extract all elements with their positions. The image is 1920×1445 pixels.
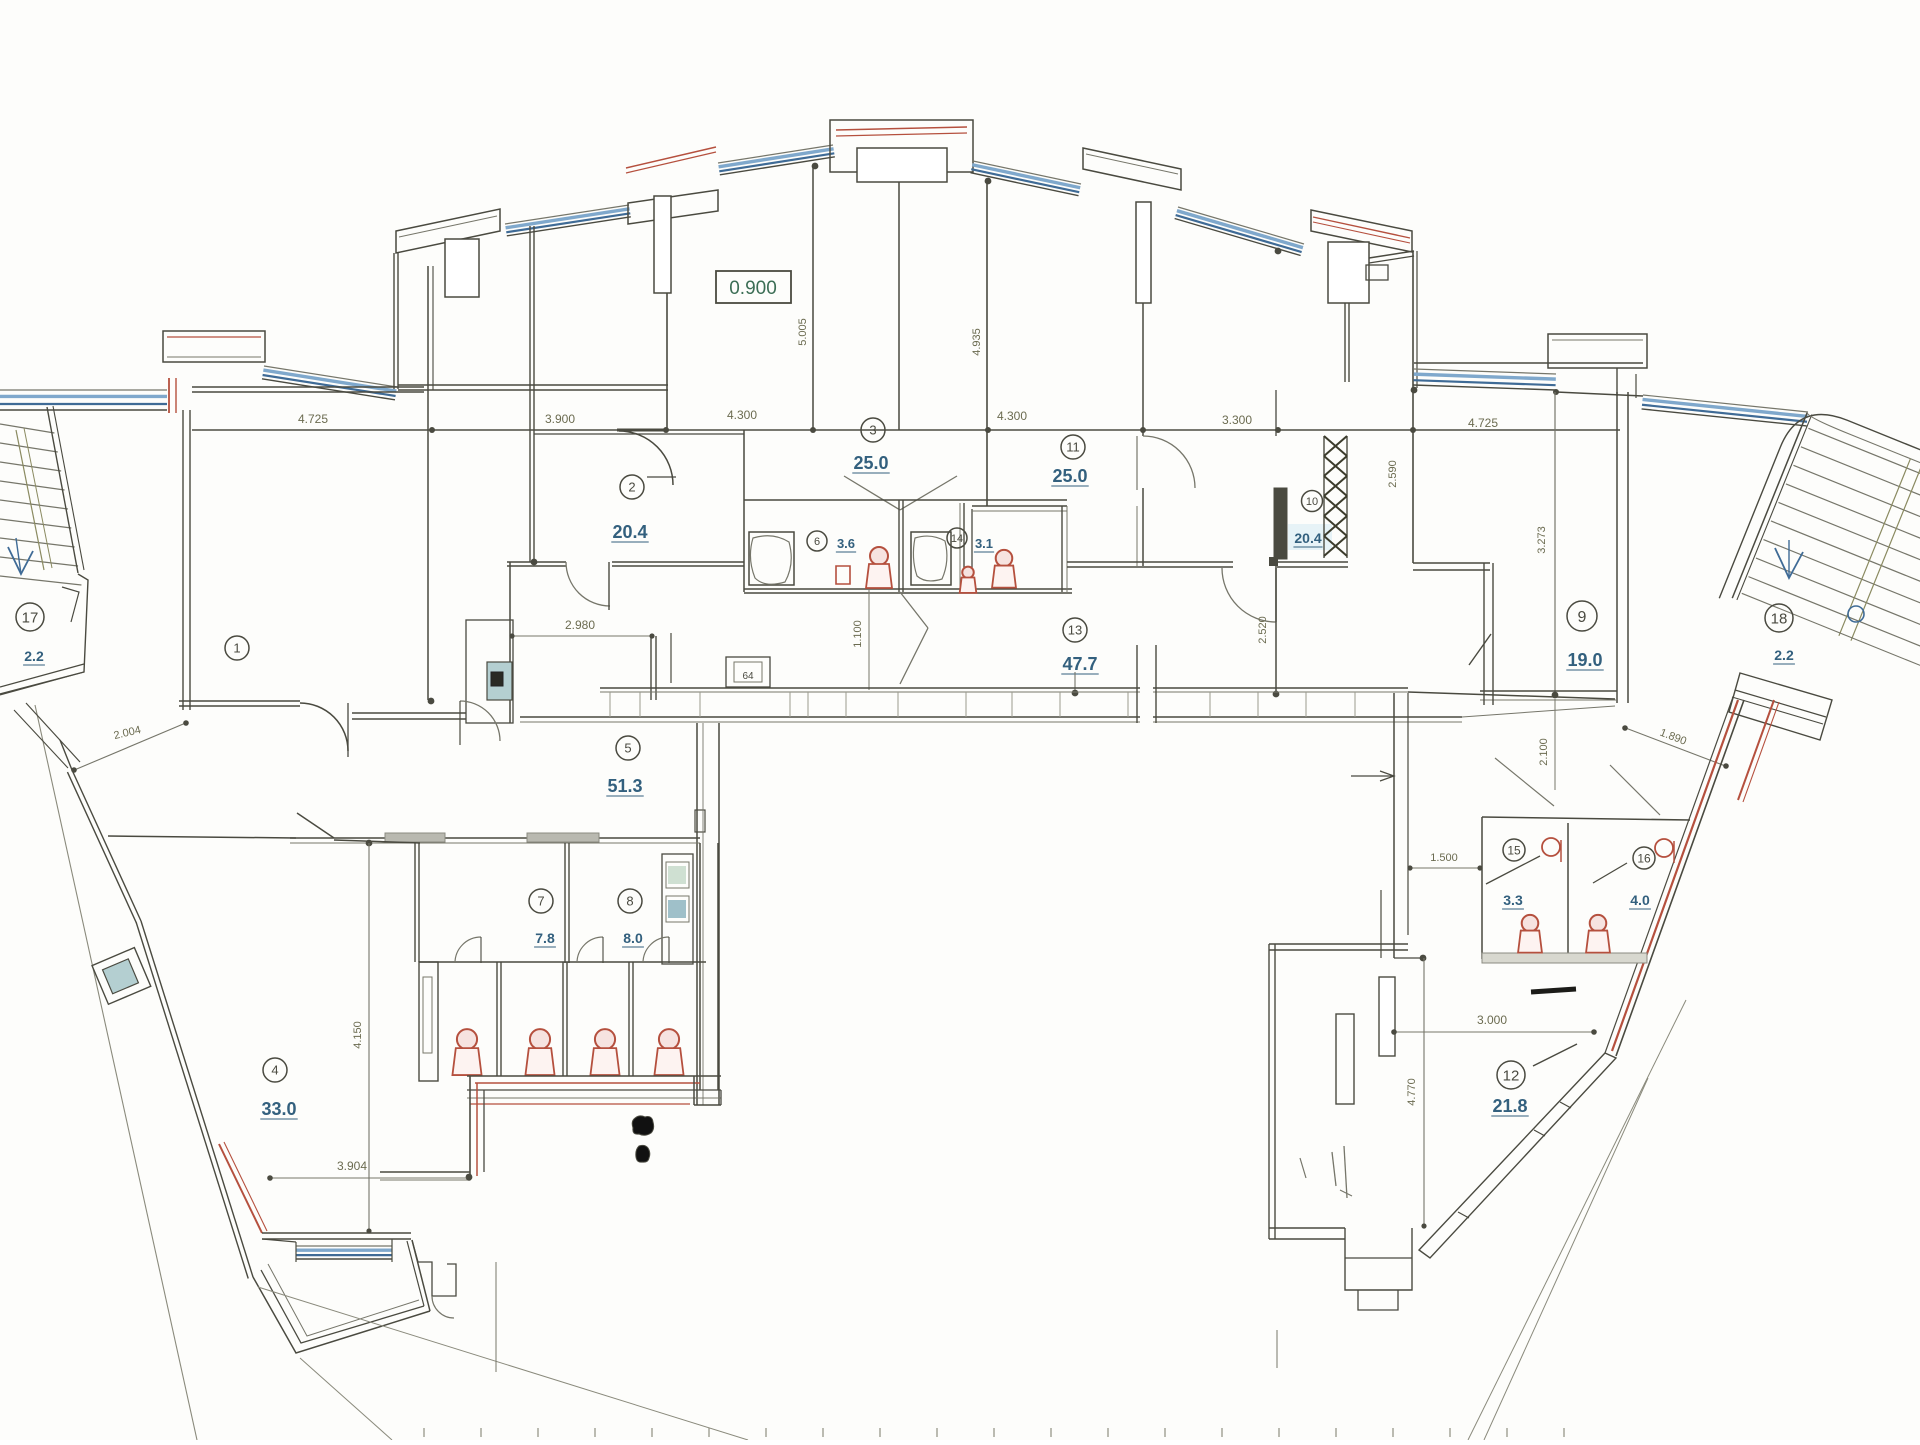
toilet wc15 [1522, 915, 1539, 932]
node dot [428, 698, 435, 705]
door arc room2 top [619, 431, 673, 485]
wall room2 top second line [534, 433, 744, 435]
room circle 11 [1061, 435, 1085, 459]
hall right wall inner [1380, 890, 1382, 958]
wall below pillar 2 [666, 293, 668, 430]
thick wall under toilets [467, 1075, 721, 1077]
wire sloped window strip 4 [973, 161, 1081, 184]
stair left stringer olive [16, 430, 44, 570]
svg-text:7: 7 [537, 894, 544, 909]
toilet stall 3 [595, 1029, 615, 1049]
svg-text:4.0: 4.0 [1630, 892, 1650, 908]
node junction [985, 178, 992, 185]
room circle 10 [1302, 491, 1323, 512]
balcony bump 4 [1311, 210, 1412, 252]
svg-text:5: 5 [624, 741, 631, 756]
balcony bump 2 [628, 190, 718, 224]
corridor wall hatch ticks [609, 692, 611, 717]
sink wc16 [1655, 839, 1673, 857]
site diagonal SE [1468, 1000, 1686, 1440]
bay step right [412, 1240, 456, 1296]
door arc room1 bottom [300, 703, 348, 751]
vert dim 4770 [1423, 958, 1425, 1228]
svg-text:16: 16 [1637, 851, 1651, 865]
door wc15 [1486, 856, 1540, 884]
toilet stall 2 [530, 1029, 550, 1049]
wall rooms 11-13 bottom [1067, 561, 1233, 563]
svg-text:3.900: 3.900 [545, 412, 575, 426]
stall right wall [699, 843, 701, 1090]
svg-text:3.3: 3.3 [1503, 892, 1523, 908]
dim 2004 diagonal [72, 722, 188, 771]
wall wc top [1482, 817, 1690, 820]
shelf unit [662, 854, 693, 964]
stair arrow blue [8, 547, 33, 574]
wall room1 left [182, 410, 184, 710]
wire sloped window strip 3 [718, 145, 833, 163]
room circle 13 [1063, 618, 1087, 642]
room circle 7 [529, 889, 553, 913]
svg-text:3.300: 3.300 [1222, 413, 1252, 427]
red rail diagonal [1738, 700, 1774, 800]
room circle 3 [861, 418, 885, 442]
dim 1890 diagonal [1623, 727, 1728, 767]
peak window sill [857, 148, 947, 182]
node wing dot [1411, 387, 1418, 394]
svg-text:0.900: 0.900 [729, 278, 777, 299]
shower room14 [911, 532, 951, 585]
wall segment bottom [1277, 561, 1348, 563]
svg-text:47.7: 47.7 [1062, 654, 1097, 674]
wall toilets left [418, 843, 420, 962]
svg-text:14: 14 [951, 533, 963, 545]
wall bottom right of door [352, 712, 466, 714]
node dot [531, 559, 538, 566]
stair arrow blue right [1775, 548, 1803, 578]
wall x1143 with door [1142, 303, 1144, 436]
wall right end under toilets [693, 1076, 695, 1105]
pillar 3 [1136, 202, 1151, 303]
dim drop room13 [1074, 672, 1076, 693]
node junction [1275, 248, 1282, 255]
site line west [35, 705, 197, 1440]
svg-text:1.890: 1.890 [1658, 727, 1688, 748]
svg-text:7.8: 7.8 [535, 930, 555, 946]
teal shaft box [487, 662, 512, 700]
west wall upper piece [60, 740, 72, 770]
door arc stall 1 [455, 937, 481, 963]
door leaf and arc lower [1275, 568, 1277, 622]
balcony bump 3 [1083, 148, 1181, 190]
node red jamb at strip end [168, 378, 170, 413]
stall divider 2 [566, 962, 568, 1076]
ink blob 2 [636, 1145, 650, 1162]
wall wing top y392 [1556, 392, 1643, 396]
toilet wc16 [1590, 915, 1607, 932]
svg-text:8.0: 8.0 [623, 930, 643, 946]
svg-text:2.004: 2.004 [113, 724, 143, 742]
wall x813 [812, 166, 814, 430]
bay window wall band mid [261, 1270, 424, 1343]
black shaft bar [1274, 488, 1287, 559]
svg-text:2.980: 2.980 [565, 618, 595, 632]
svg-text:3.000: 3.000 [1477, 1013, 1507, 1027]
wall below corner bump [397, 253, 399, 389]
wall x899 [898, 182, 900, 430]
small blue circle [1848, 606, 1864, 622]
vestibule right wall [1061, 506, 1063, 592]
balcony bump top-left [163, 331, 265, 362]
thick wall L corner down [469, 1076, 471, 1180]
room circle 17 [16, 603, 44, 631]
svg-text:33.0: 33.0 [261, 1099, 296, 1119]
wall under wc [1394, 957, 1423, 959]
node black square [1269, 557, 1278, 566]
ink blob 1 [632, 1116, 653, 1135]
wall room12 top [1269, 943, 1408, 945]
room circle 4 [263, 1058, 287, 1082]
bathtub room6 [749, 532, 794, 585]
wall x657-671 [655, 636, 657, 700]
door zigzag near bath [900, 592, 928, 628]
svg-text:19.0: 19.0 [1567, 650, 1602, 670]
door arc stall 2 [577, 937, 603, 963]
wall x510 [509, 562, 511, 723]
svg-text:1.500: 1.500 [1430, 852, 1458, 864]
bay window wall band outer [253, 1277, 430, 1353]
room circle 16 [1633, 847, 1655, 869]
svg-text:12: 12 [1503, 1067, 1520, 1084]
step detail right of bump 4 [1366, 265, 1388, 280]
wire right wing window strip B [1643, 395, 1808, 412]
diagonal red core [1612, 700, 1738, 1051]
corridor wall right section [1480, 690, 1617, 692]
dim 3904 [268, 1177, 471, 1179]
svg-text:6: 6 [814, 536, 820, 548]
pencil marks room12 [1332, 1152, 1336, 1186]
wall between room1 and room2 [533, 226, 535, 562]
tilted utility box [92, 948, 151, 1005]
wall bath top [744, 499, 1067, 501]
area room10 [1288, 524, 1332, 550]
wall bath left [743, 430, 745, 592]
svg-text:20.4: 20.4 [1294, 530, 1321, 546]
bay diagonal site line [258, 1287, 748, 1440]
dim 3000 [1392, 1031, 1596, 1033]
stair landing 17 [0, 574, 88, 694]
wall right wing corner [1412, 251, 1414, 563]
svg-text:4.725: 4.725 [1468, 416, 1498, 430]
svg-text:51.3: 51.3 [607, 776, 642, 796]
small pilaster hall left [695, 810, 705, 832]
door V marks room3 [844, 476, 900, 510]
room circle 1 [225, 636, 249, 660]
room circle 5 [616, 736, 640, 760]
wall x567 upper [564, 843, 566, 963]
door arc in y562 [566, 562, 610, 606]
svg-text:2.590: 2.590 [1387, 460, 1399, 488]
svg-text:5.005: 5.005 [797, 318, 809, 346]
room12 inner pilaster [1336, 1014, 1354, 1104]
bay diagonal site line 2 [300, 1358, 392, 1440]
svg-text:4.725: 4.725 [298, 412, 328, 426]
red accent on west wall [219, 1144, 262, 1233]
leader lines above wc [1495, 758, 1554, 806]
stall divider 1 [500, 962, 502, 1076]
wall x987 [986, 181, 988, 506]
vestibule top wall [972, 505, 1067, 507]
svg-text:18: 18 [1771, 610, 1788, 627]
room circle 6 [807, 531, 827, 551]
svg-text:4.300: 4.300 [997, 409, 1027, 423]
thin line below bay [495, 1262, 497, 1372]
node junction [812, 163, 819, 170]
site diagonal SE 2 [1484, 1078, 1648, 1440]
room circle 12 [1497, 1061, 1525, 1089]
corridor wall upper line [600, 687, 1408, 689]
stair lower flight lines [26, 703, 80, 762]
leader room12 [1533, 1044, 1577, 1066]
room circle 18 [1765, 604, 1793, 632]
room circle 9 [1567, 601, 1597, 631]
corridor lower wall right part [1408, 692, 1615, 699]
grey lintel 2 [527, 833, 599, 842]
bay window wall right edge [412, 1240, 430, 1311]
dim ticks on chain [429, 427, 435, 433]
sink room6 [836, 566, 850, 584]
arrow mark [1351, 775, 1394, 777]
wall rooms top inner [398, 384, 668, 386]
diagonal wall SE [1616, 700, 1744, 1056]
node dot [1273, 691, 1280, 698]
toilet stall 4 [659, 1029, 679, 1049]
wall room9 right [1616, 392, 1618, 703]
svg-text:2.100: 2.100 [1538, 738, 1550, 766]
toilet stall 1 [457, 1029, 477, 1049]
basin counter [419, 962, 438, 1081]
wall bath14 right [963, 503, 965, 592]
wall y562 west [507, 561, 566, 563]
wall below pillar 4 [1348, 303, 1350, 382]
svg-text:25.0: 25.0 [853, 453, 888, 473]
svg-text:17: 17 [22, 609, 39, 626]
svg-text:64: 64 [742, 671, 754, 682]
wall bath bottom [744, 588, 1072, 590]
hall left wall [696, 723, 698, 1105]
balcony bump 5 [1548, 334, 1647, 368]
pilaster right wall [1379, 977, 1395, 1056]
wall wc15 left [1481, 817, 1483, 959]
door arc stall 3 [643, 937, 669, 963]
svg-text:3.6: 3.6 [837, 536, 855, 551]
wall slot x1145 [1140, 686, 1153, 724]
bay window blue strip [296, 1245, 392, 1247]
pillar 4 [1328, 242, 1369, 303]
door arc room5 top [460, 701, 500, 741]
pillar at corner bump [445, 239, 479, 297]
step right of bump 5 [1616, 368, 1618, 396]
svg-text:9: 9 [1578, 609, 1587, 626]
svg-text:21.8: 21.8 [1492, 1096, 1527, 1116]
room circle 14 [947, 528, 967, 548]
room4 top wall [108, 836, 296, 838]
corridor wall above toilets [290, 837, 700, 839]
dim chain line [192, 429, 1620, 431]
svg-text:3.1: 3.1 [975, 536, 993, 551]
wall room1 right [427, 266, 429, 700]
toilet room14b [996, 550, 1013, 567]
svg-text:2: 2 [628, 480, 635, 495]
door leaf room4 [297, 813, 334, 838]
dim 1500 [1408, 867, 1482, 869]
wall bath mid [902, 500, 904, 592]
svg-text:4.150: 4.150 [352, 1021, 364, 1049]
svg-text:3: 3 [869, 423, 876, 438]
vestibule left wall [971, 509, 973, 592]
room12 bottom bay [1269, 1228, 1345, 1239]
wire sloped window strip 2 [505, 205, 629, 224]
svg-text:2.520: 2.520 [1257, 616, 1269, 644]
svg-text:4.300: 4.300 [727, 408, 757, 422]
room circle 15 [1503, 839, 1525, 861]
bay inner corner lines [262, 1239, 296, 1242]
wall room12 left [1268, 944, 1270, 1239]
room circle 8 [618, 889, 642, 913]
corridor wall lower thick [520, 716, 1462, 718]
dim 2980 [510, 635, 654, 637]
svg-text:4.935: 4.935 [971, 328, 983, 356]
bay window wall band inner [268, 1264, 419, 1336]
svg-text:8: 8 [626, 894, 633, 909]
sink wc15 [1542, 838, 1560, 856]
svg-text:1: 1 [233, 641, 240, 656]
svg-text:13: 13 [1068, 623, 1082, 638]
svg-text:2.2: 2.2 [1774, 647, 1794, 663]
wall wc mid [1567, 823, 1569, 959]
pillar 2 [654, 196, 671, 293]
west wall diagonal [72, 770, 141, 921]
peak balcony bump [830, 120, 973, 172]
svg-text:10: 10 [1306, 496, 1318, 508]
toilet room14 [962, 567, 974, 579]
svg-text:25.0: 25.0 [1052, 466, 1087, 486]
shaft hatch column [1323, 436, 1325, 558]
wall x1276 upper [1275, 390, 1277, 436]
svg-text:2.2: 2.2 [24, 648, 44, 664]
closet box [466, 620, 513, 723]
door wc16 [1593, 863, 1627, 883]
svg-text:3.904: 3.904 [337, 1159, 367, 1173]
door leaf right [1469, 634, 1491, 665]
stair left rail [47, 407, 78, 573]
wall room1 top [192, 386, 424, 388]
wire left wing window strip [0, 389, 167, 391]
wc bottom band [1482, 953, 1647, 963]
stair rail end notch [62, 587, 79, 622]
svg-text:4.770: 4.770 [1406, 1078, 1418, 1106]
wall x1276 lower [1275, 566, 1277, 694]
bay window wall top [262, 1232, 411, 1234]
stall divider 3 [632, 962, 634, 1076]
svg-text:1.100: 1.100 [852, 620, 864, 648]
node dot [466, 1174, 473, 1181]
black dash mark [1531, 989, 1576, 992]
svg-text:4: 4 [271, 1063, 278, 1078]
door arc x1143 [1143, 436, 1195, 488]
stair left treads [0, 424, 54, 433]
svg-text:15: 15 [1507, 843, 1521, 857]
wall y562 mid [612, 561, 744, 563]
survey tick row [423, 1428, 425, 1437]
elevation label 0.900 [716, 271, 791, 303]
balcony bump corner [396, 209, 500, 253]
wire sloped window strip 1 [264, 366, 397, 387]
wall room9 left thin [1554, 392, 1556, 695]
dim thick tick [617, 429, 666, 432]
wall stall front [419, 961, 706, 963]
room circle 2 [620, 475, 644, 499]
stair right flight [1719, 401, 1920, 694]
wire sloped window strip 5 [1178, 207, 1304, 244]
faint line below [1276, 1330, 1278, 1368]
wall room1 bottom [179, 700, 300, 702]
wire slant to right wing [1369, 251, 1414, 258]
svg-text:20.4: 20.4 [612, 522, 647, 542]
vert dim 4150 [368, 843, 370, 1233]
svg-text:11: 11 [1066, 440, 1080, 455]
svg-text:3.273: 3.273 [1536, 526, 1548, 554]
room4 top wall b [334, 840, 420, 843]
diagonal window band room12 [1419, 1053, 1616, 1258]
wall right wing top edge [1414, 362, 1643, 364]
wall left from corner [380, 1171, 470, 1173]
box64 shaft [726, 657, 770, 687]
wall pair right of hall [1483, 563, 1485, 705]
stair 18 landing [1729, 673, 1832, 740]
grey lintel 1 [385, 833, 445, 842]
wire right wing window strip A [1414, 369, 1556, 374]
wall top horiz [1413, 562, 1490, 564]
toilet room6 [870, 547, 888, 565]
hall right wall [1393, 693, 1395, 958]
